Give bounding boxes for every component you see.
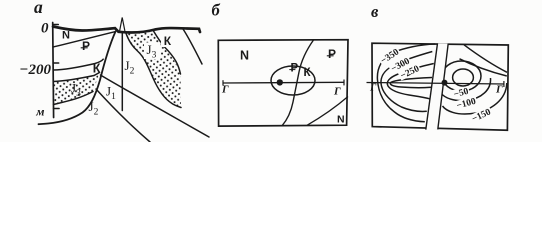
- svg-text:Г: Г: [333, 86, 341, 98]
- svg-text:Р: Р: [291, 63, 299, 75]
- svg-text:К: К: [164, 34, 172, 48]
- svg-text:б: б: [212, 1, 221, 20]
- svg-text:Р: Р: [328, 47, 336, 61]
- svg-text:а: а: [34, 0, 43, 17]
- svg-text:Р: Р: [82, 39, 90, 53]
- svg-text:Г: Г: [369, 83, 377, 94]
- svg-text:N: N: [240, 49, 249, 63]
- svg-text:м: м: [35, 105, 44, 119]
- svg-text:К: К: [93, 61, 101, 75]
- svg-text:Г: Г: [221, 84, 229, 96]
- svg-text:N: N: [62, 30, 70, 42]
- svg-text:N: N: [337, 114, 345, 126]
- svg-text:К: К: [304, 67, 312, 79]
- svg-text:−200: −200: [19, 62, 51, 78]
- svg-text:Г: Г: [495, 84, 503, 96]
- svg-text:0: 0: [41, 21, 49, 37]
- svg-text:в: в: [371, 2, 379, 21]
